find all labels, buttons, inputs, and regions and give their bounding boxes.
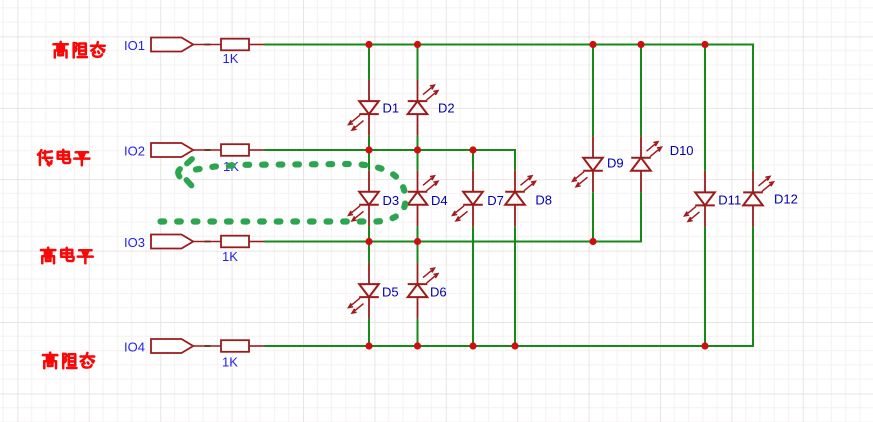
annotation 高电平 (IO3 high) — [41, 248, 93, 264]
svg-text:D10: D10 — [670, 143, 694, 158]
svg-text:IO3: IO3 — [124, 235, 145, 250]
junction at (705,44.5) — [701, 41, 708, 48]
annotation 高阻态 (IO1 hi-Z) — [53, 42, 104, 58]
connector IO1 (pin header) — [151, 38, 221, 52]
annotation 高阻态 (IO4 hi-Z) — [43, 353, 94, 369]
wire IO2 row net — [264, 150, 515, 170]
svg-text:D5: D5 — [382, 284, 399, 299]
svg-text:D3: D3 — [383, 193, 400, 208]
junction at (593,241.5) — [589, 238, 596, 245]
connector IO3 (pin header) — [151, 235, 221, 249]
wire IO3 row net (to D10 cathode) — [264, 192, 641, 241]
svg-text:D9: D9 — [607, 155, 624, 170]
LED D11 — [685, 171, 715, 227]
label D2 — [438, 100, 455, 115]
svg-text:D8: D8 — [535, 193, 552, 208]
resistor R2 1K — [221, 144, 264, 156]
resistor R3 1K — [221, 236, 264, 248]
junction at (417.5,44.5) — [414, 41, 421, 48]
junction at (473,346) — [469, 342, 476, 349]
current path arrowhead — [178, 159, 192, 186]
junction at (369,346) — [365, 342, 372, 349]
connector IO4 (pin header) — [151, 339, 221, 353]
svg-text:D2: D2 — [438, 100, 455, 115]
junction at (705,346) — [701, 342, 708, 349]
current path annotation (dashed loop around D3) — [150, 164, 405, 222]
label D12 — [774, 192, 798, 207]
svg-text:D6: D6 — [430, 284, 447, 299]
junction at (417.5,150) — [414, 146, 421, 153]
junction at (369,241.5) — [365, 238, 372, 245]
wire IO1 connector-to-resistor stub — [205, 44, 211, 46]
LED D7 — [453, 170, 483, 226]
LED D8 — [505, 170, 535, 226]
svg-text:1K: 1K — [222, 355, 238, 370]
label D6 — [430, 284, 447, 299]
net label IO1 — [124, 38, 145, 53]
wire column D8 lower — [514, 226, 516, 346]
svg-text:IO1: IO1 — [124, 38, 145, 53]
svg-text:D4: D4 — [431, 193, 448, 208]
label D8 — [535, 193, 552, 208]
label D7 — [487, 193, 504, 208]
LED D9 — [573, 136, 603, 192]
LED D10 — [631, 136, 661, 192]
label D4 — [431, 193, 448, 208]
wire column D7 — [472, 150, 474, 346]
wire column D9 — [592, 45, 594, 242]
label D10 — [670, 143, 694, 158]
net label IO3 — [124, 235, 145, 250]
junction at (473,150) — [469, 146, 476, 153]
wire IO1 row net (top rail to D12 anode) — [264, 45, 753, 171]
svg-text:D1: D1 — [383, 100, 400, 115]
annotation 低电平 (IO2 low) — [38, 150, 89, 166]
value label 1K of R2 — [223, 159, 239, 174]
junction at (417.5,346) — [414, 342, 421, 349]
connector IO2 (pin header) — [151, 143, 221, 157]
junction at (593,44.5) — [589, 41, 596, 48]
svg-text:1K: 1K — [222, 249, 238, 264]
junction at (515,346) — [511, 342, 518, 349]
wire IO4 row net (bottom rail to D12 cathode) — [264, 227, 753, 346]
label D3 — [383, 193, 400, 208]
value label 1K of R3 — [222, 249, 238, 264]
junction at (641,44.5) — [637, 41, 644, 48]
svg-text:IO4: IO4 — [124, 339, 145, 354]
resistor R4 1K — [221, 340, 264, 352]
LED D3 — [349, 170, 379, 226]
svg-text:IO2: IO2 — [124, 143, 145, 158]
wire IO4 connector-to-resistor stub — [205, 345, 211, 347]
svg-text:D12: D12 — [774, 192, 798, 207]
wire IO2 connector-to-resistor stub — [205, 149, 211, 151]
net label IO2 — [124, 143, 145, 158]
LED D1 — [349, 80, 379, 136]
LED D4 — [408, 170, 438, 226]
net label IO4 — [124, 339, 145, 354]
wire column D11 — [704, 45, 706, 347]
wire column D10 — [640, 45, 642, 242]
svg-text:1K: 1K — [223, 51, 239, 66]
svg-text:D7: D7 — [487, 193, 504, 208]
LED D2 — [408, 80, 438, 136]
LED D5 — [349, 263, 379, 319]
LED D12 — [743, 171, 773, 227]
value label 1K of R4 — [222, 355, 238, 370]
resistor R1 1K — [221, 39, 264, 51]
wire column D1/D3/D5 — [368, 45, 370, 347]
wire IO3 connector-to-resistor stub — [205, 241, 211, 243]
wire column D2/D4/D6 — [417, 45, 419, 347]
label D1 — [383, 100, 400, 115]
junction at (369,150) — [365, 146, 372, 153]
label D11 — [718, 192, 741, 207]
junction at (369,44.5) — [365, 41, 372, 48]
label D9 — [607, 155, 624, 170]
value label 1K of R1 — [223, 51, 239, 66]
label D5 — [382, 284, 399, 299]
svg-text:D11: D11 — [718, 192, 741, 207]
junction at (417.5,241.5) — [414, 238, 421, 245]
LED D6 — [408, 263, 438, 319]
